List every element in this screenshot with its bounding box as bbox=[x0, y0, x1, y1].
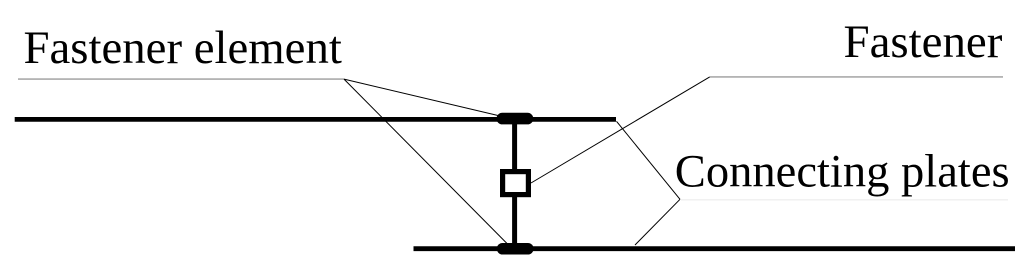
top fastener head (filled capsule) bbox=[497, 113, 534, 125]
leader line from "Fastener" to fastener element square bbox=[531, 77, 710, 183]
leader underline for "Connecting plates" bbox=[681, 199, 1008, 201]
leader underline for "Fastener" bbox=[710, 76, 1003, 78]
leader underline for "Fastener element" bbox=[18, 78, 344, 80]
leader line from "Fastener element" to bottom fastener head bbox=[344, 79, 508, 244]
bottom connecting plate bbox=[414, 246, 1016, 251]
leader line from "Fastener element" to top fastener head bbox=[344, 79, 498, 115]
svg-text:Connecting plates: Connecting plates bbox=[675, 146, 1010, 197]
fastener element (square symbol) bbox=[503, 172, 529, 195]
leader line from "Connecting plates" to top plate right end bbox=[617, 121, 681, 199]
fastener shank (vertical line) bbox=[512, 117, 517, 247]
svg-text:Fastener: Fastener bbox=[844, 16, 1003, 68]
svg-text:Fastener element: Fastener element bbox=[24, 22, 342, 74]
bottom fastener head (filled capsule) bbox=[497, 243, 534, 255]
top connecting plate bbox=[15, 117, 616, 122]
leader line from "Connecting plates" to bottom plate bbox=[635, 199, 680, 245]
